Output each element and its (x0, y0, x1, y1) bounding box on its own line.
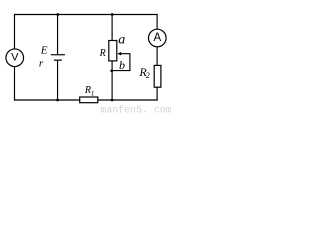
rheostat slider arrow (117, 52, 130, 56)
label R1 (84, 85, 95, 97)
wire rheostat branch bottom (111, 61, 113, 100)
svg-text:1: 1 (91, 90, 95, 98)
svg-text:R: R (99, 48, 106, 59)
wire bottom (14, 99, 158, 101)
voltmeter V (6, 49, 24, 67)
svg-text:E: E (40, 45, 48, 57)
resistor R1 (80, 97, 98, 103)
wire battery branch bottom (57, 61, 59, 100)
svg-text:V: V (11, 52, 19, 64)
node top rheostat junction (111, 13, 114, 16)
node bottom battery junction (56, 99, 59, 102)
wire right (156, 14, 158, 101)
battery cell E,r long plate (51, 54, 65, 56)
rheostat R body (109, 41, 117, 61)
wire slider loop bottom (112, 70, 131, 72)
svg-text:2: 2 (146, 71, 150, 80)
svg-text:A: A (153, 32, 161, 44)
svg-text:r: r (39, 58, 44, 70)
node top battery junction (56, 13, 59, 16)
label R2 (138, 65, 149, 80)
wire slider loop vertical (129, 54, 131, 71)
wire top (14, 14, 158, 16)
wire rheostat branch top (111, 15, 113, 41)
node bottom rheostat junction (111, 99, 114, 102)
svg-text:manfen5. com: manfen5. com (100, 104, 171, 114)
battery cell E,r short plate (54, 59, 62, 61)
wire left (14, 14, 16, 101)
resistor R2 (154, 65, 161, 87)
ammeter A (149, 29, 167, 47)
svg-text:a: a (118, 32, 125, 47)
svg-text:b: b (119, 58, 125, 72)
wire battery branch top (57, 15, 59, 55)
node slider junction (110, 69, 113, 72)
